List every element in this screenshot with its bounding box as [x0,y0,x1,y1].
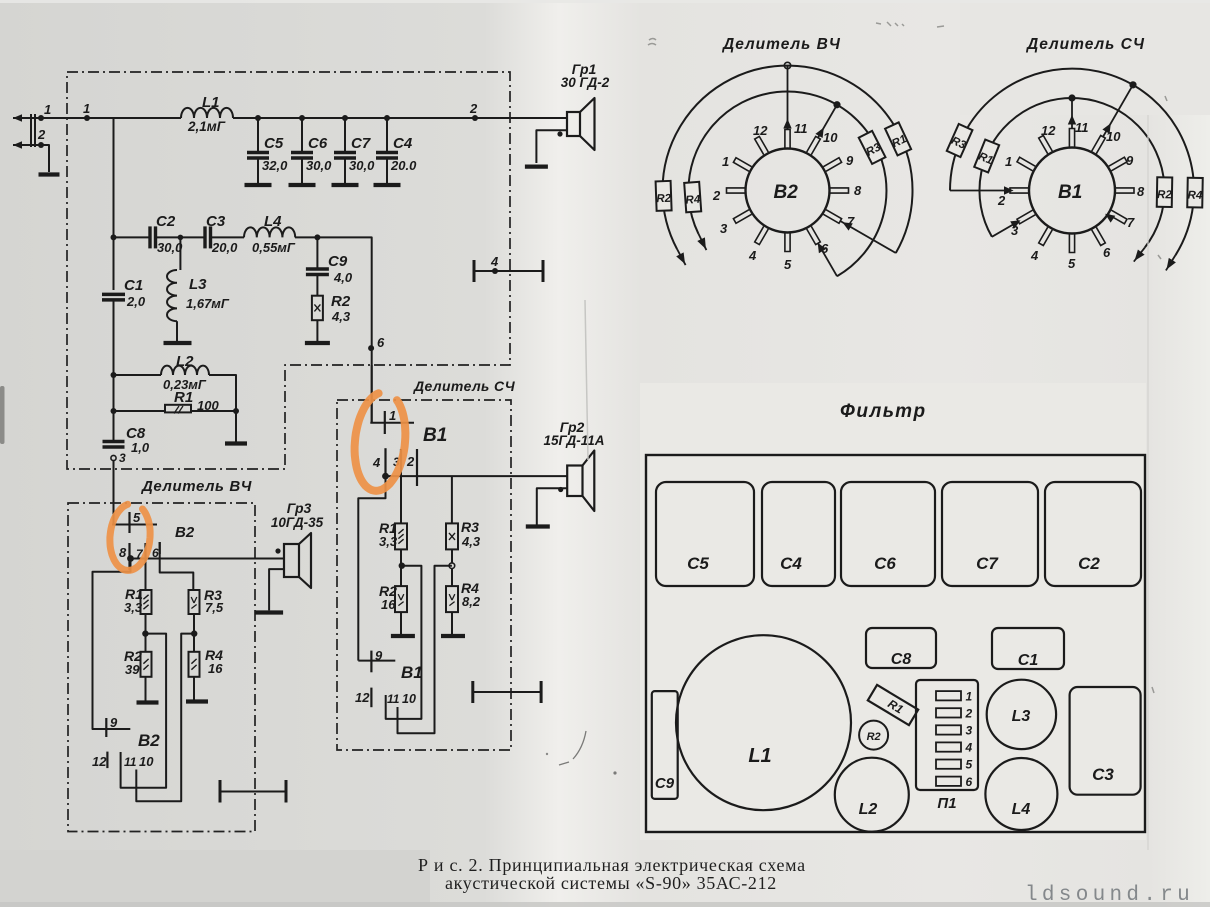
wire L1 to node 2 [233,117,475,119]
ground under B2 R2 [137,700,159,704]
wire B2 R1 to junction [145,614,147,634]
terminal B2-12 tick [106,752,108,769]
board connector P1 [916,680,978,790]
svg-text:4,3: 4,3 [461,534,481,549]
svg-text:8: 8 [854,183,862,198]
svg-text:C8: C8 [891,651,912,668]
svg-text:Гр3: Гр3 [287,500,312,516]
wire B2 tap11 loop [121,634,167,788]
resistor B2-R4 16 [189,652,200,677]
polarity dot Gr2 [558,487,563,492]
svg-text:B2: B2 [138,731,160,750]
switch B2 pin 1 [733,158,751,172]
jumper link B1 wire [473,691,541,693]
svg-text:3: 3 [119,451,126,465]
svg-text:R2: R2 [331,293,351,310]
svg-text:B1: B1 [1058,182,1082,203]
node input 1 [38,115,44,121]
wire R1 row left [114,410,166,412]
svg-text:2: 2 [37,127,46,142]
terminal B2-9 bar [92,728,131,730]
wire left bus [113,118,115,290]
svg-text:12: 12 [1041,123,1056,138]
switch B2 pin 7 [823,210,841,224]
wire node2 to ground [41,145,49,172]
wire B2 pin6 to inner arc [818,243,837,276]
node tap C5 [255,115,261,121]
wire B2 R1 feed [145,543,147,590]
polarity dot Gr3 [275,548,280,553]
switch B1 pin 4 [1039,227,1053,245]
resistor B1-R1 3.3 [395,523,407,549]
node tap C7 [342,115,348,121]
svg-text:12: 12 [753,123,768,138]
terminal B1-4 tick [384,448,386,476]
node tap C6 [299,115,305,121]
resistor box R3 on B1 outer arc [947,124,973,157]
wire B2 pin7 to outer arc [840,221,896,253]
svg-text:4,0: 4,0 [333,270,353,285]
svg-text:10: 10 [139,754,154,769]
speaker Gr1 [567,112,580,136]
svg-text:9: 9 [110,715,118,730]
svg-text:4: 4 [490,254,499,269]
wire B1 pin10 to outer arc [1103,85,1133,137]
node B2 R3R4 [191,630,197,636]
ground under B1 R4 [441,634,465,638]
jumper link B2 left bar [219,780,222,803]
switch B2 pin 4 [755,226,769,244]
svg-text:L1: L1 [748,745,771,767]
svg-text:1: 1 [966,689,973,703]
svg-text:6: 6 [1103,245,1111,260]
svg-text:11: 11 [124,755,137,769]
wire C2 to C3 [156,236,206,238]
wire C9 tap down [316,237,318,269]
wire R2 to ground [316,320,318,341]
arrow on B1 pin3 line [1010,220,1020,228]
node B2 wiper [127,555,134,562]
switch B1 pin 10 [1092,136,1106,154]
board P1 slot 3 [936,725,961,734]
svg-text:4: 4 [965,741,973,755]
svg-text:B1: B1 [423,425,447,446]
wire node6 down [371,365,373,423]
wire C3 to L4 [211,236,245,238]
board capacitor C7 [942,482,1038,586]
capacitor C3 [203,226,206,248]
capacitor C1 [102,293,125,297]
resistor R1 100 [165,405,191,413]
resistor box R4 on inner arc left [684,182,701,213]
svg-text:C1: C1 [1018,652,1039,669]
board capacitor C5 [656,482,754,586]
wire to C5 [257,118,259,152]
arrow on B2 pin11 line [783,119,791,129]
wire B2 R4 ground [193,677,195,700]
svg-text:L1: L1 [202,94,220,111]
terminal B1-3 tick [400,449,402,466]
arrow end outer arc B2 [677,249,685,265]
wire B1 wiper left branch [358,476,385,660]
svg-text:B1: B1 [401,663,423,682]
svg-text:12: 12 [355,690,370,705]
input arrow terminal 1 [13,114,22,122]
node bus C2 row [111,234,117,240]
wire C6 to bar [301,158,303,184]
svg-text:10: 10 [823,130,838,145]
svg-text:6: 6 [966,775,973,789]
jumper link B1 left bar [471,681,474,703]
svg-text:30,0: 30,0 [157,240,183,255]
wire C5 to bar [257,158,259,184]
wire C2 row left [114,236,151,238]
wire L3 to ground [176,321,178,341]
board inductor L4 circle [985,758,1057,830]
wire B1 R3 feed [451,476,453,523]
jumper link 4 left bar [473,260,476,282]
node C9 tap [314,234,320,240]
svg-text:C1: C1 [124,277,143,294]
svg-text:C6: C6 [874,554,896,573]
wire B1 pin11 to inner arc [1071,98,1073,129]
wire B2 pin11 to outer arc [787,66,789,130]
svg-text:4: 4 [1030,248,1039,263]
svg-text:C7: C7 [976,554,999,573]
node 1 [84,115,90,121]
board resistor R2 circle [859,721,888,750]
arrow end inner arc B1 [1134,247,1145,261]
terminal B1-1 bar [370,422,414,424]
capacitor C9 [306,267,329,271]
wire node3 down to B2 box [113,461,115,525]
svg-text:3,3: 3,3 [124,600,143,615]
svg-text:3: 3 [966,724,973,738]
arrow on B1 pin10 line [1102,123,1110,133]
arrow on B2 pin7 line [842,222,852,230]
node B1 outer arc dot [1129,81,1136,88]
ground under B2 R4 [186,699,208,703]
wire C4 to bar [386,158,388,184]
svg-text:16: 16 [208,661,223,676]
wire B2 R3 feed [160,542,194,590]
resistor box R1 on B1 inner arc [974,140,999,173]
svg-text:C7: C7 [351,135,371,152]
wire B1 R1 to junction [400,549,402,566]
switch B1 pin 6 [1092,227,1106,245]
board capacitor C1 [992,628,1064,669]
svg-text:R3: R3 [461,519,479,535]
frame main filter box [67,72,510,469]
resistor R2 4.3 [312,296,323,321]
board P1 slot 6 [936,777,961,786]
resistor box R4 on B1 outer arc right [1187,178,1203,208]
switch B1 pin 2 [1010,188,1028,193]
svg-text:1: 1 [722,154,729,169]
svg-text:Делитель ВЧ: Делитель ВЧ [721,36,841,53]
wire main input bus [41,117,181,119]
board capacitor C8 [866,628,936,668]
capacitor C8 [103,440,125,444]
switch B2 pin 5 [785,234,790,252]
svg-text:R2: R2 [867,731,881,743]
switch B2 rotor circle [746,149,830,233]
svg-text:16: 16 [381,597,396,612]
svg-text:C2: C2 [1078,554,1100,573]
svg-text:Делитель СЧ: Делитель СЧ [1025,36,1145,53]
svg-text:2: 2 [965,706,973,720]
wire node2 to Gr1 [475,117,567,119]
svg-text:C5: C5 [687,554,709,573]
wire L4 to corner [295,237,372,423]
svg-text:1: 1 [1005,154,1012,169]
resistor B1-R2 16 [395,586,407,612]
resistor box R2 on B1 inner arc right [1157,177,1173,207]
svg-text:3,3: 3,3 [379,534,398,549]
wire Gr1 return [536,130,567,163]
svg-text:L4: L4 [264,213,282,230]
ground under L2R1 [225,441,247,445]
svg-text:30,0: 30,0 [306,158,332,173]
annotation orange oval on B1 pins [355,393,406,491]
ground under B1 R2 [391,634,415,638]
node L2-R1 right [233,408,239,414]
switch B1 pin 7 [1109,210,1127,224]
wire R1 row right [191,410,236,412]
wire B1 pin2 to outer arc [950,190,1010,192]
node B1 inner arc dot [1068,94,1075,101]
svg-text:B2: B2 [774,182,799,203]
svg-text:C4: C4 [393,135,413,152]
svg-text:C3: C3 [206,213,226,230]
board capacitor C6 [841,482,935,586]
node input 2 [38,142,44,148]
svg-text:39: 39 [125,662,140,677]
svg-text:6: 6 [377,335,385,350]
svg-text:L2: L2 [176,353,194,370]
resistor box R3 on inner arc [859,131,886,164]
wire B1 wiper to Gr2 [386,475,568,477]
svg-text:Р и с. 2. Принципиальная эле: Р и с. 2. Принципиальная электрическая с… [418,855,806,875]
stray arrow near B1 pin7 [1105,214,1115,223]
switch B2 pin 9 [823,158,841,172]
svg-text:10ГД-35: 10ГД-35 [271,515,324,530]
node outer arc top ring [784,62,790,68]
wire B1 tap10 loop [398,566,452,734]
wire B1 pin3 to inner arc [992,222,1018,237]
board inductor L2 circle [835,758,909,832]
switch B2 pin 3 [733,210,751,224]
inner arc B1 [979,98,1164,247]
wire B1 R3 to junction [451,549,453,563]
ground bar under C4 [374,183,401,187]
inner arc B2 [688,91,886,276]
svg-text:11: 11 [387,692,400,706]
svg-text:L2: L2 [859,801,878,818]
svg-text:C6: C6 [308,135,328,152]
svg-text:2: 2 [406,454,415,469]
svg-text:4: 4 [748,248,757,263]
jumper link 4 wire [474,270,543,272]
svg-text:7: 7 [1127,215,1135,230]
svg-text:5: 5 [966,758,973,772]
ground input [39,172,60,176]
terminal B1-9 bar [358,660,395,662]
wire B2 R3 to junction [193,614,195,634]
svg-text:11: 11 [1075,120,1089,135]
input arrow terminal 2 [13,141,22,149]
svg-text:1: 1 [83,101,90,116]
svg-text:1,0: 1,0 [131,440,150,455]
svg-text:R4: R4 [1187,190,1203,202]
ground Gr3 [255,610,283,614]
resistor B2-R1 3.3 [141,590,152,614]
wire to ground L2R1 [235,411,237,442]
terminal B2-5 bar [112,524,157,526]
connector X1 bars [30,114,32,147]
terminal B1-1 tick [384,411,386,434]
jumper link B1 right bar [540,681,543,703]
svg-text:1: 1 [389,408,396,423]
svg-text:L3: L3 [189,276,207,293]
svg-text:5: 5 [133,510,141,525]
svg-text:2: 2 [469,101,478,116]
svg-text:8: 8 [119,545,127,560]
board inductor L1 circle [676,635,851,810]
frame Delitel SCH box [337,400,511,750]
wire B2 R2 ground [145,677,147,701]
svg-text:11: 11 [794,121,808,136]
switch B1 pin 3 [1017,210,1035,224]
ground under L3 [164,341,192,345]
svg-text:2: 2 [712,188,721,203]
node B1 R3R4 ring [449,563,455,569]
switch B1 rotor circle [1029,148,1115,234]
annotation orange oval on B2 pins [110,504,150,570]
svg-text:R4: R4 [685,194,701,207]
board P1 slot 5 [936,760,961,769]
wire B1 R4 ground [451,612,453,634]
svg-text:12: 12 [92,754,107,769]
terminal B2-9 tick [105,718,107,737]
terminal B2-8 tick [128,543,130,570]
terminal B2-5 tick [128,512,130,533]
wire B1 tap11 loop [386,566,422,719]
ground Gr1 [525,164,548,168]
wire B1 R2 ground [400,612,402,634]
switch B1 pin 12 [1039,136,1053,154]
svg-text:П1: П1 [937,795,956,812]
ground bar under C6 [289,183,316,187]
wire bus below C1 [113,300,115,442]
svg-text:C2: C2 [156,213,176,230]
jumper link B2 right bar [285,780,288,803]
wire B2 wiper to Gr3 [131,558,285,560]
svg-text:30,0: 30,0 [349,158,375,173]
terminal B1-9 tick [370,651,372,673]
node on link 4 [492,268,498,274]
terminal B1-2 tick [416,449,418,486]
terminal B2-6 tick [159,542,161,554]
svg-text:8: 8 [1137,184,1145,199]
switch B2 pin 8 [831,188,849,193]
board capacitor C4 [762,482,835,586]
node 6 [368,345,374,351]
polarity dot Gr1 [557,131,562,136]
svg-text:9: 9 [846,153,854,168]
resistor B2-R3 7.5 [189,590,200,614]
svg-text:10: 10 [402,692,416,706]
inductor L2 [161,366,209,375]
svg-text:5: 5 [1068,256,1076,271]
svg-text:1,67мГ: 1,67мГ [186,296,230,311]
wire input terminal 2 lead [13,144,41,146]
arrow on B2 pin6 line [818,243,826,253]
switch B2 pin 11 [785,130,790,148]
ground bar under C5 [245,183,272,187]
node R1 left [111,408,117,414]
svg-text:9: 9 [375,648,383,663]
jumper link B2 wire [220,791,286,793]
board inductor L3 circle [987,680,1056,749]
terminal B1-12 tick [370,688,372,708]
terminal B2-7 tick [144,543,146,557]
switch B2 pin 2 [727,188,745,193]
board capacitor C3 [1070,687,1141,795]
wire C7 to bar [344,158,346,184]
board Filtr outline [646,455,1145,832]
wire L2 left [114,374,162,376]
svg-text:3: 3 [720,221,728,236]
resistor box R1 on outer arc [885,122,911,155]
switch B1 pin 8 [1116,188,1134,193]
node 2 [472,115,478,121]
wire Gr2 return [537,488,567,525]
outer arc B2 [663,66,913,253]
node 3 ring [111,455,116,460]
svg-text:Фильтр: Фильтр [840,401,927,422]
svg-text:2,1мГ: 2,1мГ [187,119,226,134]
svg-text:2,0: 2,0 [126,294,146,309]
speaker Gr2 [567,466,582,497]
svg-text:20.0: 20.0 [390,158,417,173]
capacitor C7 [334,151,356,155]
svg-text:C5: C5 [264,135,284,152]
wire B2 wiper left branch [93,559,131,730]
inductor L1 [181,108,233,118]
svg-text:4: 4 [372,455,381,470]
resistor box R2 on outer arc left [656,181,672,211]
svg-text:8,2: 8,2 [462,594,481,609]
svg-text:R2: R2 [656,193,672,206]
svg-text:5: 5 [784,257,792,272]
svg-text:L3: L3 [1012,708,1031,725]
wire B2 tap10 loop [136,634,194,802]
svg-text:Делитель ВЧ: Делитель ВЧ [140,478,252,495]
capacitor C6 [291,151,313,155]
svg-text:C3: C3 [1092,765,1114,784]
switch B1 pin 11 [1069,129,1074,147]
svg-text:32,0: 32,0 [262,158,288,173]
wire B2 pin10 to inner arc [818,105,837,138]
arrow on B2 pin10 line [815,128,823,138]
svg-text:C4: C4 [780,554,802,573]
node C2-L3 [178,235,184,241]
resistor B1-R4 8.2 [446,586,458,612]
svg-text:B2: B2 [175,524,195,541]
board P1 slot 2 [936,708,961,717]
arrow end inner arc B2 [699,234,707,250]
